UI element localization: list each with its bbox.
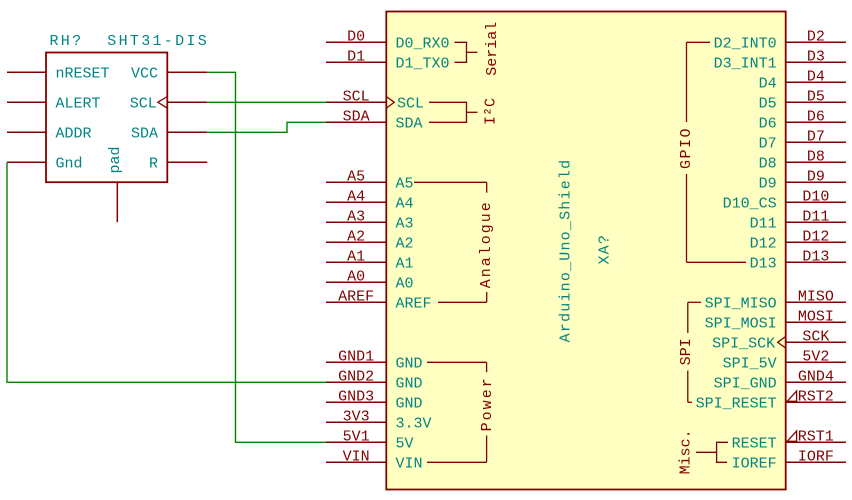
svg-text:D12: D12 [750, 235, 777, 252]
svg-text:MOSI: MOSI [798, 308, 834, 325]
pin ADDR (SHT31 left, y=132.3) [7, 125, 92, 142]
pin VIN (shield left, y=462.3) [326, 455, 423, 472]
pin R (SHT31 right, y=162.3) [149, 155, 207, 172]
svg-text:SCL: SCL [397, 95, 424, 112]
svg-text:VCC: VCC [131, 65, 158, 82]
svg-text:nRESET: nRESET [56, 65, 110, 82]
pin D0_RX0 (shield left, y=42.3) [326, 35, 450, 52]
svg-text:A1: A1 [396, 255, 414, 272]
svg-text:GPIO: GPIO [678, 127, 695, 169]
pin D8 (shield right, y=162.3) [759, 155, 846, 172]
svg-text:D12: D12 [802, 228, 829, 245]
group bracket SPI [678, 302, 701, 402]
svg-text:A0: A0 [396, 275, 414, 292]
svg-text:A0: A0 [347, 268, 365, 285]
svg-text:SCL: SCL [343, 88, 370, 105]
svg-text:A5: A5 [396, 175, 414, 192]
pin SPI_MOSI (shield right, y=322.3) [705, 315, 846, 332]
pin A3 (shield left, y=222.3) [326, 215, 414, 232]
svg-text:GND2: GND2 [338, 368, 374, 385]
svg-text:D2_INT0: D2_INT0 [714, 35, 777, 52]
svg-text:D13: D13 [750, 255, 777, 272]
group bracket Serial [455, 22, 501, 76]
net label /RST2 [787, 388, 834, 405]
svg-text:D7: D7 [759, 135, 777, 152]
svg-text:D6: D6 [759, 115, 777, 132]
pin D13 (shield right, y=262.3) [750, 255, 846, 272]
svg-text:Analogue: Analogue [478, 200, 495, 288]
svg-text:I²C: I²C [483, 98, 500, 125]
svg-text:GND4: GND4 [798, 368, 834, 385]
svg-text:IOREF: IOREF [732, 455, 777, 472]
svg-text:D9: D9 [807, 168, 825, 185]
svg-text:GND: GND [396, 395, 423, 412]
svg-text:RST2: RST2 [798, 388, 834, 405]
svg-text:SCK: SCK [802, 328, 829, 345]
svg-text:D5: D5 [759, 95, 777, 112]
pin D7 (shield right, y=142.3) [759, 135, 846, 152]
svg-text:MISO: MISO [798, 288, 834, 305]
pin D1_TX0 (shield left, y=62.3) [326, 55, 450, 72]
svg-text:A3: A3 [396, 215, 414, 232]
group bracket I2C [429, 98, 500, 125]
svg-text:XA?: XA? [596, 234, 613, 265]
svg-text:5V: 5V [396, 435, 414, 452]
svg-text:D4: D4 [759, 75, 777, 92]
svg-text:SPI_SCK: SPI_SCK [712, 335, 775, 352]
svg-text:D3_INT1: D3_INT1 [714, 55, 777, 72]
svg-text:D6: D6 [807, 108, 825, 125]
svg-text:D7: D7 [807, 128, 825, 145]
wire SCL net [207, 101, 326, 103]
svg-text:GND1: GND1 [338, 348, 374, 365]
svg-text:D11: D11 [802, 208, 829, 225]
net label /RST1 [787, 428, 834, 445]
pin D10_CS (shield right, y=202.3) [723, 195, 846, 212]
pin SDA (SHT31 right, y=132.3) [131, 125, 207, 142]
pin SCL (SHT31 right, y=102.3) [130, 95, 208, 112]
svg-text:Misc.: Misc. [678, 429, 695, 474]
svg-text:ADDR: ADDR [56, 125, 92, 142]
pin A2 (shield left, y=242.3) [326, 235, 414, 252]
pin Gnd (SHT31 left, y=162.3) [7, 155, 83, 172]
svg-text:SPI_GND: SPI_GND [714, 375, 777, 392]
pin D4 (shield right, y=82.3) [759, 75, 846, 92]
svg-text:SDA: SDA [131, 125, 158, 142]
svg-text:SHT31-DIS: SHT31-DIS [107, 33, 209, 50]
svg-text:SDA: SDA [396, 115, 423, 132]
pin GND (shield left, y=382.3) [326, 375, 423, 392]
pin D6 (shield right, y=122.3) [759, 115, 846, 132]
svg-text:D9: D9 [759, 175, 777, 192]
symbol RH? SHT31-DIS body [46, 53, 167, 183]
svg-text:A2: A2 [347, 228, 365, 245]
pin 5V (shield left, y=442.3) [326, 435, 414, 452]
svg-text:A1: A1 [347, 248, 365, 265]
svg-text:A3: A3 [347, 208, 365, 225]
svg-text:SPI: SPI [678, 338, 695, 365]
pin SPI_RESET (shield right, y=402.3) [696, 395, 846, 412]
svg-text:Power: Power [479, 376, 496, 431]
svg-text:D0_RX0: D0_RX0 [396, 35, 450, 52]
pin A1 (shield left, y=262.3) [326, 255, 414, 272]
symbol XA? Arduino_Uno_Shield body [386, 12, 785, 490]
wire SDA net [207, 122, 326, 132]
svg-text:SPI_MISO: SPI_MISO [705, 295, 777, 312]
svg-text:D1: D1 [347, 48, 365, 65]
pin VCC (SHT31 right, y=72.3) [131, 65, 207, 82]
svg-text:GND: GND [396, 355, 423, 372]
svg-text:ALERT: ALERT [56, 95, 101, 112]
svg-text:D3: D3 [807, 48, 825, 65]
svg-text:AREF: AREF [396, 295, 432, 312]
pin SPI_MISO (shield right, y=302.3) [705, 295, 846, 312]
svg-text:SCL: SCL [130, 95, 157, 112]
pin AREF (shield left, y=302.3) [326, 295, 432, 312]
svg-text:D10: D10 [802, 188, 829, 205]
svg-text:R: R [149, 155, 158, 172]
pin D2_INT0 (shield right, y=42.3) [714, 35, 846, 52]
svg-text:RST1: RST1 [798, 428, 834, 445]
svg-text:A4: A4 [347, 188, 365, 205]
svg-text:VIN: VIN [343, 448, 370, 465]
svg-text:D10_CS: D10_CS [723, 195, 777, 212]
svg-text:VIN: VIN [396, 455, 423, 472]
pin D3_INT1 (shield right, y=62.3) [714, 55, 846, 72]
wire Gnd to GND2 net [7, 162, 326, 382]
svg-text:5V1: 5V1 [343, 428, 370, 445]
svg-text:RH?: RH? [50, 33, 84, 50]
svg-text:Serial: Serial [484, 22, 501, 76]
svg-text:D11: D11 [750, 215, 777, 232]
svg-text:5V2: 5V2 [802, 348, 829, 365]
svg-text:D13: D13 [802, 248, 829, 265]
pin SPI_GND (shield right, y=382.3) [714, 375, 846, 392]
pin IOREF (shield right, y=462.3) [732, 455, 846, 472]
svg-text:SPI_RESET: SPI_RESET [696, 395, 777, 412]
pin ALERT (SHT31 left, y=102.3) [7, 95, 101, 112]
svg-text:3.3V: 3.3V [396, 415, 432, 432]
group bracket GPIO [678, 42, 746, 262]
svg-text:3V3: 3V3 [343, 408, 370, 425]
svg-text:D0: D0 [347, 28, 365, 45]
pin SDA (shield left, y=122.3) [326, 115, 423, 132]
pin pad (SHT31 bottom) [107, 146, 124, 222]
svg-text:SPI_5V: SPI_5V [723, 355, 777, 372]
svg-text:GND3: GND3 [338, 388, 374, 405]
svg-text:A5: A5 [347, 168, 365, 185]
svg-text:D4: D4 [807, 68, 825, 85]
pin A0 (shield left, y=282.3) [326, 275, 414, 292]
svg-text:SDA: SDA [343, 108, 370, 125]
pin SPI_SCK (shield right, y=342.3) [712, 335, 846, 352]
pin D12 (shield right, y=242.3) [750, 235, 846, 252]
svg-text:IORF: IORF [798, 448, 834, 465]
group bracket Misc. [678, 429, 728, 474]
group bracket Power [427, 362, 496, 462]
svg-text:Arduino_Uno_Shield: Arduino_Uno_Shield [558, 159, 575, 343]
svg-text:A4: A4 [396, 195, 414, 212]
pin D11 (shield right, y=222.3) [750, 215, 846, 232]
pin nRESET (SHT31 left, y=72.3) [7, 65, 110, 82]
pin A4 (shield left, y=202.3) [326, 195, 414, 212]
pin GND (shield left, y=402.3) [326, 395, 423, 412]
pin SPI_5V (shield right, y=362.3) [723, 355, 846, 372]
pin GND (shield left, y=362.3) [326, 355, 423, 372]
svg-text:AREF: AREF [338, 288, 374, 305]
svg-text:SPI_MOSI: SPI_MOSI [705, 315, 777, 332]
pin D9 (shield right, y=182.3) [759, 175, 846, 192]
svg-text:pad: pad [107, 146, 124, 173]
svg-text:D2: D2 [807, 28, 825, 45]
pin RESET (shield right, y=442.3) [732, 435, 846, 452]
svg-text:Gnd: Gnd [56, 155, 83, 172]
svg-text:D8: D8 [807, 148, 825, 165]
svg-text:D5: D5 [807, 88, 825, 105]
wire VCC to 5V1 net [207, 72, 326, 442]
pin SCL (shield left, y=102.3) [326, 95, 424, 112]
pin 3.3V (shield left, y=422.3) [326, 415, 432, 432]
svg-text:GND: GND [396, 375, 423, 392]
svg-text:D1_TX0: D1_TX0 [396, 55, 450, 72]
svg-text:A2: A2 [396, 235, 414, 252]
svg-text:D8: D8 [759, 155, 777, 172]
group bracket Analogue [414, 182, 495, 302]
pin A5 (shield left, y=182.3) [326, 175, 414, 192]
pin D5 (shield right, y=102.3) [759, 95, 846, 112]
svg-text:RESET: RESET [732, 435, 777, 452]
